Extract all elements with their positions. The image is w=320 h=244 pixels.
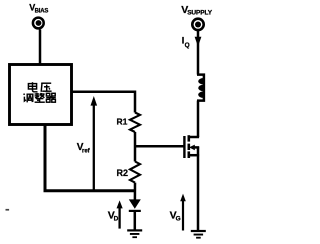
svg-text:BIAS: BIAS — [35, 9, 49, 15]
svg-text:Q: Q — [185, 42, 190, 49]
svg-text:D: D — [114, 215, 119, 222]
svg-text:R2: R2 — [117, 168, 129, 178]
svg-text:G: G — [176, 215, 181, 222]
svg-text:ref: ref — [82, 149, 91, 155]
svg-text:SUPPLY: SUPPLY — [187, 9, 213, 16]
svg-text:R1: R1 — [117, 116, 128, 126]
